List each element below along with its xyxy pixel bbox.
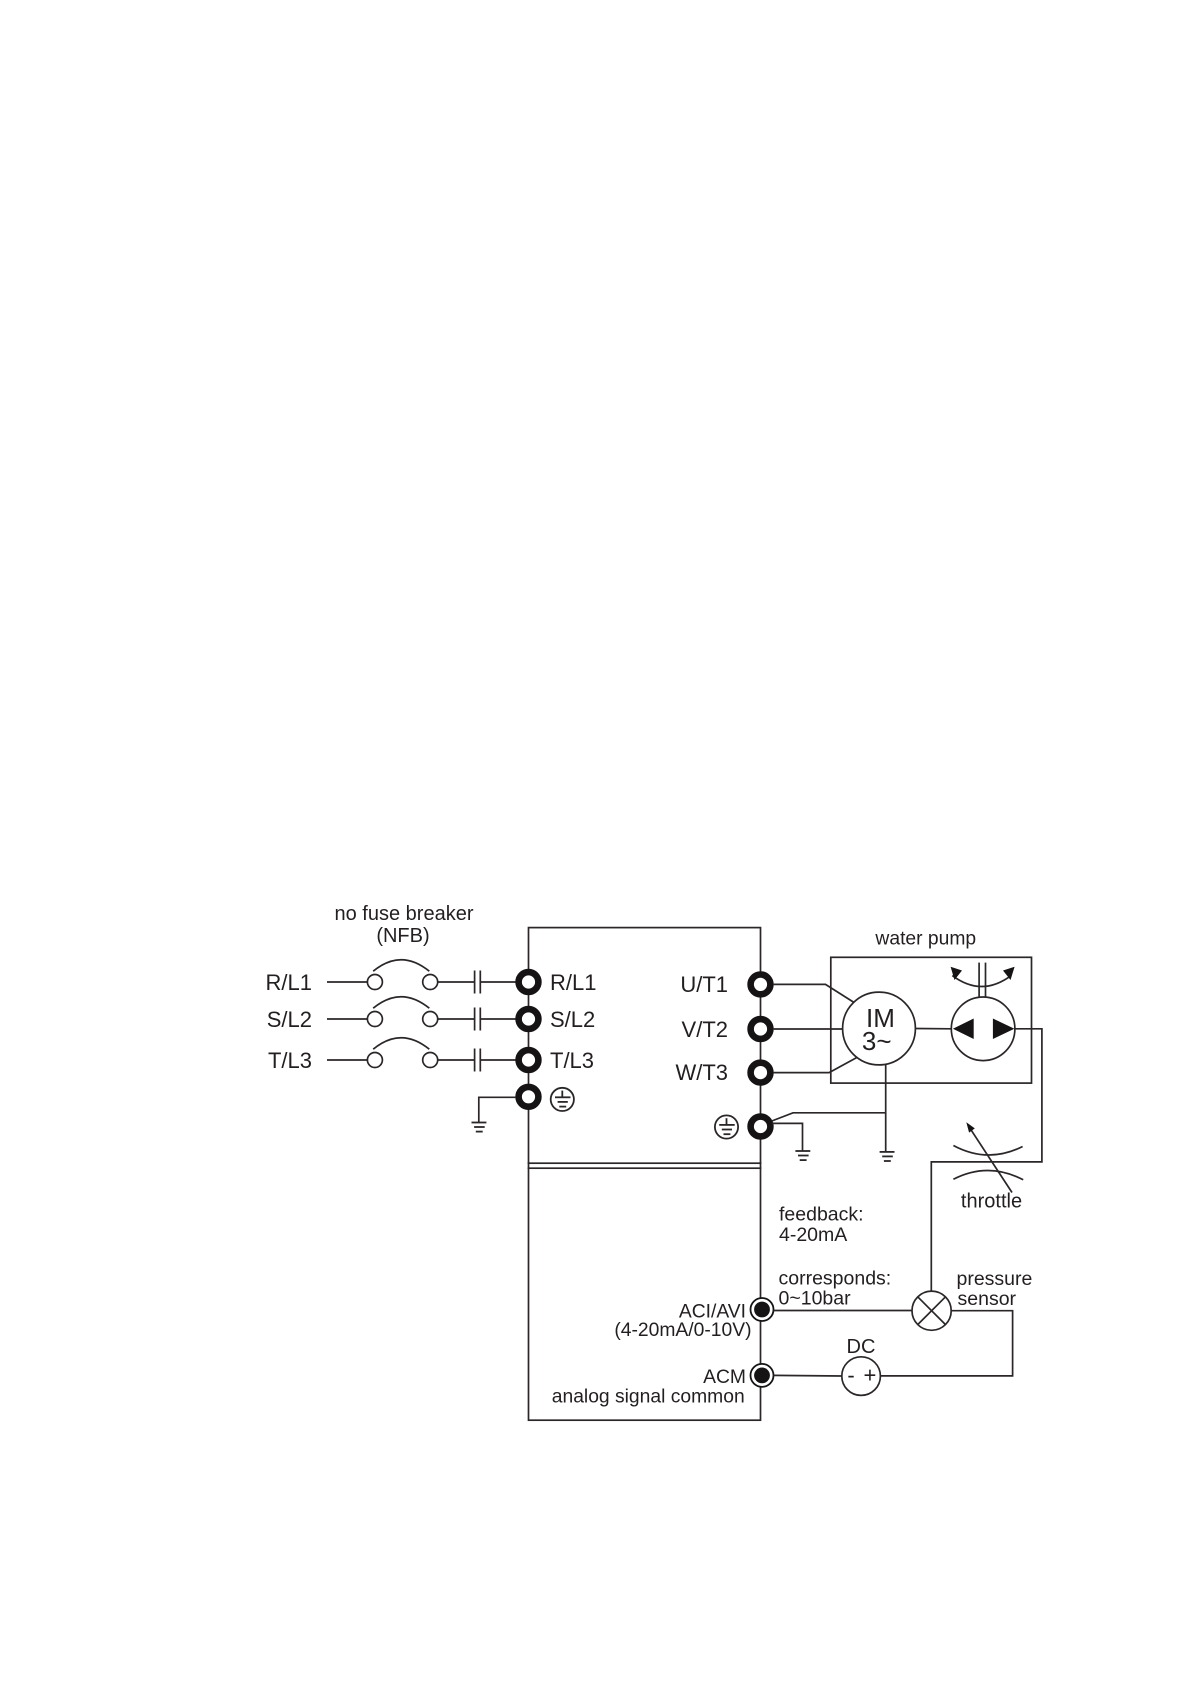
- ground symbol right: [795, 1151, 810, 1160]
- wire: [437, 1059, 474, 1061]
- contact bar: [479, 1008, 481, 1031]
- contact bar: [474, 1008, 476, 1031]
- throttle upper arc: [953, 1146, 1022, 1156]
- breaker pole circle: [423, 1012, 438, 1027]
- breaker pole circle: [367, 1012, 382, 1027]
- terminal W/T3: [751, 1063, 771, 1083]
- wire: [327, 981, 368, 983]
- rotation arc: [952, 976, 1011, 987]
- svg-text:V/T2: V/T2: [682, 1017, 728, 1042]
- svg-text:corresponds:: corresponds:: [779, 1267, 892, 1289]
- svg-text:DC: DC: [847, 1336, 876, 1358]
- contact bar: [479, 971, 481, 994]
- breaker row T/L3: [327, 1038, 516, 1072]
- svg-text:throttle: throttle: [961, 1190, 1022, 1212]
- contact bar: [479, 1049, 481, 1072]
- breaker pole circle: [423, 975, 438, 990]
- ground symbol left: [472, 1123, 487, 1132]
- wire motor to pump: [915, 1028, 951, 1030]
- drive lower box: [529, 1168, 761, 1420]
- svg-text:4-20mA: 4-20mA: [779, 1224, 847, 1246]
- wire U/T1 to motor: [773, 984, 853, 1002]
- svg-text:(NFB): (NFB): [376, 925, 429, 947]
- terminal PE right: [751, 1117, 771, 1137]
- terminal PE left: [519, 1087, 539, 1107]
- breaker arc: [373, 960, 429, 972]
- svg-text:ACM: ACM: [703, 1367, 746, 1388]
- svg-text:S/L2: S/L2: [267, 1007, 312, 1032]
- wire: [480, 981, 516, 983]
- svg-text:water pump: water pump: [874, 928, 976, 949]
- wire left ground: [479, 1097, 516, 1122]
- DC source circle: [842, 1357, 881, 1396]
- pressure sensor X: [918, 1297, 946, 1325]
- wire: [760, 1162, 762, 1169]
- svg-text:sensor: sensor: [958, 1288, 1017, 1310]
- wire V/T2 to motor: [773, 1028, 843, 1030]
- svg-text:3~: 3~: [862, 1026, 892, 1056]
- svg-text:S/L2: S/L2: [550, 1007, 595, 1032]
- wire: [480, 1018, 516, 1020]
- rotation arrowhead left: [951, 967, 962, 980]
- terminal U/T1: [751, 975, 771, 995]
- water pump box: [831, 957, 1032, 1083]
- throttle lower arc: [953, 1171, 1023, 1180]
- terminal R/L1: [519, 972, 539, 992]
- wire motor bottom to ground: [885, 1065, 887, 1152]
- contact bar: [474, 971, 476, 994]
- wire: [327, 1059, 368, 1061]
- wire pressure sensor to DC: [880, 1311, 1012, 1376]
- throttle arrowhead: [966, 1122, 975, 1132]
- svg-text:+: +: [863, 1362, 876, 1387]
- svg-text:W/T3: W/T3: [675, 1060, 728, 1085]
- svg-text:feedback:: feedback:: [779, 1204, 864, 1226]
- breaker pole circle: [367, 975, 382, 990]
- breaker arc: [373, 1038, 429, 1050]
- wire ACI/AVI to pressure sensor: [774, 1310, 912, 1312]
- ground symbol motor: [880, 1152, 895, 1161]
- wire: [327, 1018, 368, 1020]
- breaker pole circle: [367, 1053, 382, 1068]
- svg-text:T/L3: T/L3: [268, 1048, 312, 1073]
- breaker arc: [373, 997, 429, 1009]
- wire: [437, 981, 474, 983]
- wire pump to throttle: [931, 1029, 1042, 1291]
- breaker row S/L2: [327, 997, 516, 1031]
- svg-text:analog signal common: analog signal common: [552, 1386, 745, 1407]
- rotation arrowhead right: [1003, 967, 1015, 980]
- PE symbol right: [715, 1115, 738, 1138]
- wire W/T3 to motor: [773, 1057, 857, 1072]
- terminal S/L2: [519, 1009, 539, 1029]
- wire DC to ACM: [774, 1374, 842, 1377]
- svg-text:(4-20mA/0-10V): (4-20mA/0-10V): [614, 1320, 751, 1341]
- terminal V/T2: [751, 1019, 771, 1039]
- wire: [480, 1059, 516, 1061]
- svg-text:0~10bar: 0~10bar: [779, 1287, 852, 1309]
- breaker row R/L1: [327, 960, 516, 994]
- contact bar: [474, 1049, 476, 1072]
- pump left triangle: [953, 1019, 974, 1040]
- wire: [528, 1162, 530, 1169]
- svg-text:T/L3: T/L3: [550, 1048, 594, 1073]
- wire PE right to ground 2: [772, 1123, 803, 1151]
- drive upper box: [529, 928, 761, 1164]
- PE symbol left: [551, 1088, 574, 1111]
- pump shaft lines: [979, 963, 985, 998]
- terminal ACM: [751, 1364, 774, 1387]
- terminal ACI/AVI: [751, 1298, 774, 1321]
- svg-text:R/L1: R/L1: [550, 970, 596, 995]
- svg-text:no fuse breaker: no fuse breaker: [335, 903, 474, 925]
- pump circle: [951, 997, 1015, 1061]
- motor IM circle: [843, 992, 916, 1065]
- svg-text:pressure: pressure: [957, 1268, 1033, 1290]
- pressure sensor circle: [912, 1291, 951, 1330]
- terminal T/L3: [519, 1050, 539, 1070]
- breaker pole circle: [423, 1053, 438, 1068]
- svg-text:R/L1: R/L1: [266, 970, 312, 995]
- throttle arrow line: [970, 1128, 1012, 1192]
- wire PE right terminal to motor ground: [772, 1113, 886, 1121]
- pump right triangle: [993, 1019, 1015, 1040]
- wire: [437, 1018, 474, 1020]
- svg-text:-: -: [847, 1362, 854, 1387]
- svg-text:U/T1: U/T1: [680, 972, 728, 997]
